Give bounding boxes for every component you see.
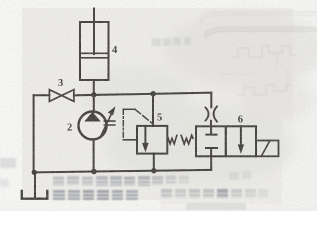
wire valve5 to bottom rail <box>153 154 155 171</box>
valve 5 spring <box>167 135 177 144</box>
bleed-through text bottom <box>53 171 268 210</box>
wire pump to bottom rail <box>93 140 95 172</box>
node B junction dot <box>151 91 156 96</box>
valve 5 internal arrow <box>144 126 146 144</box>
cylinder 4 piston <box>80 53 109 58</box>
pump variable arrow <box>101 113 112 136</box>
cylinder 4 body <box>80 22 109 80</box>
cylinder 4 rod <box>93 9 95 55</box>
pilot line to valve5 left <box>123 139 137 141</box>
pilot line vertical (dash-dot) <box>122 109 124 140</box>
soft scan mottling <box>80 12 320 185</box>
pump 2 outlet triangle <box>85 113 99 121</box>
pilot line top horizontal <box>123 108 135 110</box>
left edge faint bleed smudges <box>0 158 16 187</box>
junction dot tank tee <box>32 170 37 175</box>
junction dot pump return <box>91 169 97 175</box>
tank <box>22 191 48 199</box>
valve 6 flow arrow <box>240 126 242 145</box>
node A junction dot <box>91 92 96 97</box>
pump compensator lines <box>104 121 115 125</box>
wire node A to pump <box>93 95 95 112</box>
valve 6 blocked port top <box>206 126 216 134</box>
wire rail corner down to throttle <box>210 93 212 108</box>
pump 2 circle <box>79 112 107 140</box>
wire top rail <box>74 93 211 96</box>
wire node B to valve5 <box>152 94 154 126</box>
throttle orifice <box>206 106 218 121</box>
faint mirrored page number top center <box>152 37 191 46</box>
wire cylinder to node A <box>93 80 95 95</box>
valve 6 body (two positions) <box>196 126 226 156</box>
wire to tank <box>34 172 36 198</box>
wire valve6 to bottom rail <box>210 156 212 170</box>
junction dot valve5 return <box>151 168 156 173</box>
wire throttle to valve 6 <box>210 121 212 127</box>
wire valve3 left <box>34 94 50 96</box>
bleed-through marks top right <box>200 12 317 95</box>
valve 6 blocked port bottom <box>206 148 217 156</box>
shut-off valve 3 <box>49 90 74 102</box>
relief/compensator valve 5 box <box>137 126 167 154</box>
solenoid actuator <box>256 141 279 157</box>
wire left riser (valve 3 to bottom rail) <box>33 95 35 172</box>
pilot line diagonal (dashed) <box>135 109 153 123</box>
bottom rail <box>34 170 212 173</box>
